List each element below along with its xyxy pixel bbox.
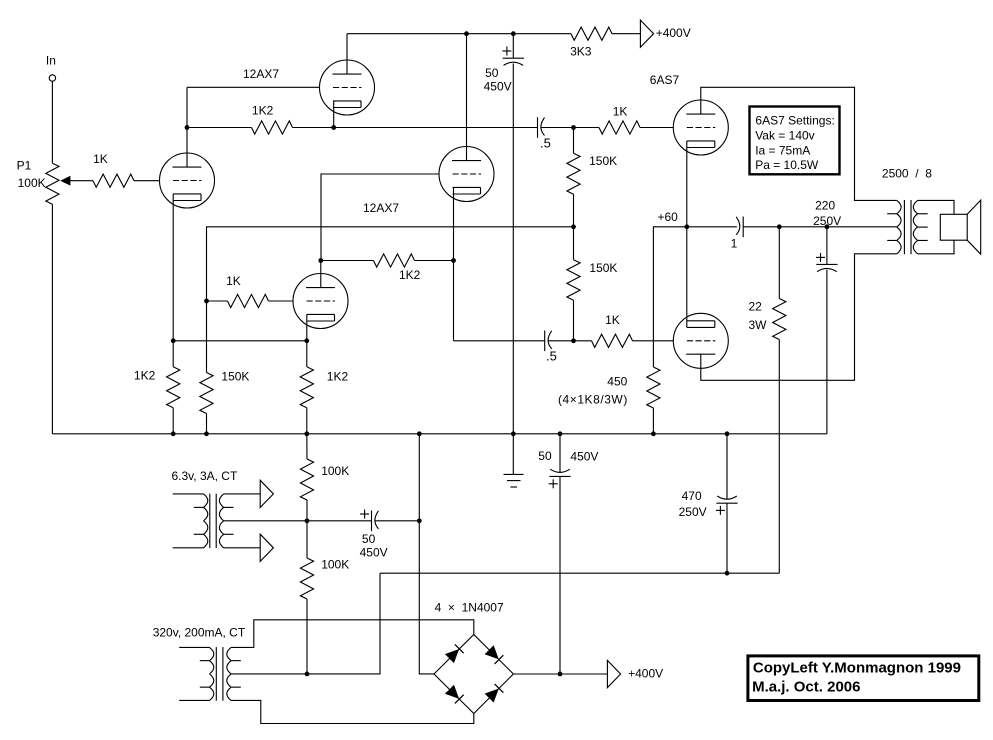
svg-text:250V: 250V [813,214,841,228]
node dot C3 / R6 / R7 [571,338,576,343]
wire R5 to V3 grid [640,127,674,129]
wire C1 top [512,34,514,59]
transformer T3 primary [210,647,214,660]
node dot rail R10 [204,431,209,436]
node dot rail C8 [725,431,730,436]
wire T2 center tap [224,520,307,522]
wire R12 bottom [306,408,308,434]
resistor R13 450 (4x1K8/3W) [647,367,660,408]
svg-text:3K3: 3K3 [570,45,592,59]
wire top rail B+ [347,33,571,35]
svg-text:50: 50 [362,532,376,546]
T1 primary stub lower [887,239,897,241]
svg-text:1K: 1K [613,104,628,118]
wire V1a plate lead up [186,87,188,167]
wire V3 cathode lead to +60 [686,141,688,227]
wire +60 to C4 [687,226,737,228]
svg-text:Pa = 10.5W: Pa = 10.5W [755,158,819,172]
transformer T2 primary wires [173,493,204,495]
transformer T3 secondary [227,647,231,660]
T3 primary stub upper [200,660,210,662]
T2 secondary stub lower [224,533,234,535]
svg-text:50: 50 [538,449,552,463]
node dot divider mid [571,224,576,229]
wire R6 top [573,227,575,260]
wire R12 top [306,341,308,367]
diode D4 bottom-right [486,689,498,701]
T2 primary stub upper [194,506,204,508]
node dot R13 rail [651,431,656,436]
svg-text:450V: 450V [570,449,598,463]
svg-text:450V: 450V [484,79,512,93]
svg-text:Ia = 75mA: Ia = 75mA [755,143,810,157]
capacitor C8 470uF 250V [716,502,737,504]
diode D1 top-left [446,650,458,662]
wire V1b plate lead [320,261,322,288]
transformer T2 secondary [219,494,223,507]
resistor R5 1K grid stopper [599,121,640,134]
transformer T1 output primary [897,200,901,213]
svg-text:50: 50 [485,66,499,80]
triode V4 6AS7 lower [673,313,728,368]
wire CT to elevated rail [307,573,380,674]
svg-text:1K2: 1K2 [327,369,349,383]
triode V2b 12AX7 [439,147,494,202]
wire R11 bottom [172,408,174,434]
svg-text:M.a.j. Oct. 2006: M.a.j. Oct. 2006 [752,679,860,696]
svg-text:.5: .5 [540,136,551,151]
svg-text:320v, 200mA, CT: 320v, 200mA, CT [153,625,246,639]
power arrow +400V bottom [607,660,620,687]
T2 secondary stub upper [224,506,234,508]
node dot rail R12 R16 [304,431,309,436]
node dot C2 / R4 / R5 [571,125,576,130]
wire bridge plus to arrow [513,673,607,675]
svg-text:6AS7 Settings:: 6AS7 Settings: [755,113,834,127]
node dot +60 [684,224,689,229]
svg-text:450: 450 [607,375,627,389]
svg-text:4 × 1N4007: 4 × 1N4007 [435,600,504,614]
T3 primary stub lower [200,686,210,688]
capacitor C3 0.5uF [544,331,546,352]
capacitor C1 50uF 450V [503,57,524,59]
resistor R2 1K2 [252,121,293,134]
transformer T3 primary wires [179,646,209,648]
T2 primary stub lower [194,533,204,535]
svg-text:6AS7: 6AS7 [650,73,680,87]
wire V4 cathode lead up [686,227,688,328]
svg-text:220: 220 [815,198,835,212]
svg-text:150K: 150K [589,261,617,275]
wire V2a cathode to C2 [334,127,538,129]
svg-text:2500 / 8: 2500 / 8 [882,166,932,180]
svg-text:+400V: +400V [656,26,691,40]
wire C7 top lead [559,434,561,473]
wire +60 to C5 [779,226,827,228]
triode V1b 12AX7 [293,274,348,329]
wire R6 bottom [573,300,575,341]
resistor R9 1K to V1b grid [228,294,269,307]
node dot R17 HV CT [305,672,310,677]
node dot N1 / R9 [204,299,209,304]
svg-text:100K: 100K [18,176,46,190]
node dot rail V2b plate [464,31,469,36]
wire R8 right [415,260,454,262]
capacitor C4 1uF [742,217,744,238]
wire C8 top lead [726,434,728,500]
svg-text:1K2: 1K2 [134,369,156,383]
wire V4 plate run to OPT bottom [701,254,897,380]
wire V2a cathode lead [333,101,335,128]
speaker LS1 box [940,214,967,240]
svg-text:12AX7: 12AX7 [363,201,399,215]
node dot C8 CT rail [725,571,730,576]
info box copyright [748,656,979,701]
svg-text:1: 1 [731,236,738,250]
triode V3 6AS7 upper [673,100,728,155]
wire R13 to rail [652,408,654,434]
wire elevated CT rail [380,572,779,574]
node dot V1a plate / R2 [185,125,190,130]
wire R15 down to CT rail [778,340,780,574]
svg-text:In: In [46,53,56,67]
svg-text:P1: P1 [17,158,32,172]
svg-text:Vak = 140v: Vak = 140v [755,129,814,143]
wire V2b grid run [321,174,439,261]
svg-text:470: 470 [682,489,702,503]
bridge diamond [434,635,513,714]
wire R4 bottom to node [573,194,575,227]
transformer T3 core [215,647,217,701]
wire T1 secondary bottom to speaker [918,240,954,254]
wire T3 secondary bottom to bridge [231,700,474,723]
ground symbol [512,434,514,475]
capacitor C5 220uF 250V [816,263,837,265]
transformer T1 secondary [913,200,917,213]
wire R11 top [172,341,174,367]
wire R17 top [306,521,308,558]
wire main ground rail [52,433,827,435]
resistor R15 22 3W [773,299,786,340]
wire N1 top run [207,227,574,301]
wire C2 to node [541,127,573,129]
T1 primary stub upper [887,213,897,215]
node In input terminal [49,75,55,81]
node dot CT R16 R17 C6 [305,518,310,523]
svg-text:6.3v, 3A, CT: 6.3v, 3A, CT [172,469,238,483]
wire R1 to V1a grid [134,180,160,182]
svg-text:100K: 100K [321,558,349,572]
plus C8 [716,509,725,511]
resistor R14 1K [592,334,633,347]
resistor R10 150K N1 [200,373,213,414]
wire In to P1 [51,81,53,163]
capacitor C6 50uF 450V [371,511,373,532]
svg-text:1K: 1K [605,313,620,327]
svg-text:1K: 1K [93,152,108,166]
wire T2 heater B [224,547,261,549]
wire C5 top lead [826,227,828,265]
wire 3K3 to arrow [612,33,640,35]
transformer T2 primary [204,494,208,507]
wire cathode to C3 [454,340,545,342]
wire V1a plate to V2a grid [187,86,320,88]
wire T2 heater A [224,493,261,495]
wire T3 secondary top to bridge [231,620,474,648]
node dot R15 top [777,224,782,229]
svg-text:250V: 250V [679,505,707,519]
node dot C5 top [825,224,830,229]
wire V2b cathode lead down [453,187,455,340]
T1 secondary stub lower [918,239,928,241]
wire C4 to R15 [743,226,779,228]
speaker LS1 horn [967,200,981,254]
node dot rail C7 [558,431,563,436]
wire V3 plate run to OPT top [701,87,897,200]
heater arrow B [260,534,273,561]
wire C5 bottom lead [826,270,828,434]
potentiometer P1 100K [46,163,59,204]
wire T3 center tap [231,673,307,675]
wire node to R5 [574,127,600,129]
diode D3 bottom-left [446,686,458,698]
heater arrow A [260,480,273,507]
plus C6 [360,513,369,515]
svg-text:+60: +60 [658,210,679,224]
svg-text:150K: 150K [589,154,617,168]
node dot V2b cathode / R8 [451,258,456,263]
node dot C7 bottom [558,672,563,677]
wire C7 bottom lead [559,476,561,674]
wire C1 down to ground rail [512,64,514,434]
wire R16 top [306,434,308,459]
resistor R8 1K2 [374,254,415,267]
node dot rail bridge minus [417,431,422,436]
node dot V2a cathode [331,125,336,130]
wire C3 to node [548,340,573,342]
wire V1a cathode lead [172,194,174,341]
svg-text:CopyLeft Y.Monmagnon 1999: CopyLeft Y.Monmagnon 1999 [753,659,961,676]
wire +60 left corner [653,227,686,367]
wire R2 left [187,127,252,129]
svg-text:450V: 450V [360,546,388,560]
resistor R17 100K lower [300,558,313,599]
resistor R6 150K lower [567,260,580,301]
node dot V1a cathode [171,338,176,343]
svg-text:22: 22 [749,300,763,314]
svg-text:1K2: 1K2 [399,268,421,282]
resistor R4 150K upper [567,153,580,194]
node dot C6 bridge column [417,518,422,523]
resistor R12 1K2 V1b cathode [300,367,313,408]
wire R2 right to V2a cathode [293,127,334,129]
node dot V2b grid / V1b plate / R8 [318,258,323,263]
wire node to R9 [207,300,228,302]
svg-text:.5: .5 [546,349,557,364]
wire R4 top [573,128,575,154]
wire R8 left [321,260,374,262]
capacitor C2 0.5uF [537,117,539,138]
wire V1b cathode lead [306,315,308,341]
wire R16 bottom [306,500,308,521]
triode V1a 12AX7 first stage [160,153,215,208]
wire 1K R14 to V4 grid [633,340,674,342]
svg-text:1K2: 1K2 [252,103,274,117]
wire wiper to R1 [70,180,94,182]
transformer T1 core [903,200,905,254]
transformer T2 core [209,494,211,548]
wire C8 bottom lead [726,503,728,573]
wire R9 to V1b grid [269,300,294,302]
wire V2a plate lead to top rail [346,34,348,74]
wire CT to C6 [307,520,372,522]
resistor R16 100K upper [300,459,313,500]
power arrow +400V top [640,20,653,47]
wire N1 to R10 [206,301,208,373]
wire R17 bottom [306,599,308,674]
plus C5 [816,256,825,258]
capacitor C7 50uF 450V [549,475,570,477]
svg-text:(4×1K8/3W): (4×1K8/3W) [558,392,628,406]
plus C7 [549,483,558,485]
node dot V1b cathode [304,338,309,343]
resistor R3 3K3 [571,27,612,40]
plus C1 [502,50,511,52]
info box 6AS7 settings [750,107,840,175]
svg-text:3W: 3W [749,318,768,332]
triode V2a 12AX7 follower [320,60,375,115]
P1 wiper arrow [61,177,70,185]
svg-text:+400V: +400V [628,667,663,681]
svg-text:100K: 100K [321,464,349,478]
T1 secondary stub mid [918,226,928,228]
svg-text:1K: 1K [226,274,241,288]
wire node to R14 [574,340,592,342]
svg-text:150K: 150K [221,370,249,384]
wire V2b plate lead to rail [466,34,468,161]
svg-text:12AX7: 12AX7 [243,67,279,81]
wire bridge minus column [419,434,434,674]
resistor R11 1K2 V1a cathode [167,367,180,408]
wire +60 to OPT center tap [827,226,897,228]
wire R15 leads [778,227,780,299]
resistor R1 1K [93,174,134,187]
node dot rail ground symbol [511,431,516,436]
wire C6 to bridge column [375,520,419,522]
T1 secondary stub upper [918,213,928,215]
T3 secondary stub lower [231,686,241,688]
diode D2 top-right [486,646,498,658]
wire T1 secondary top to speaker [918,200,954,214]
wire cathode link [173,340,307,342]
node dot rail C1 [511,31,516,36]
T3 secondary stub upper [231,660,241,662]
node dot rail R11 [171,431,176,436]
wire P1 bottom to ground rail [51,204,53,433]
wire R10 to rail [206,414,208,434]
